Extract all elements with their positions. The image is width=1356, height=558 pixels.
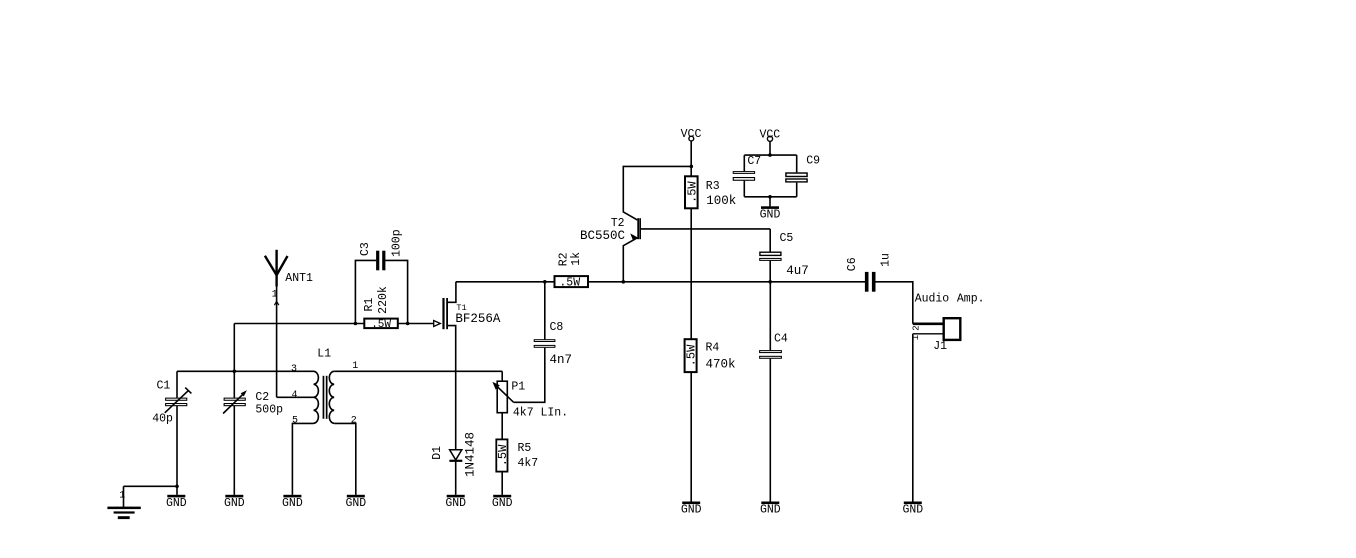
svg-text:.5W: .5W xyxy=(496,444,510,466)
wire P1 top drop xyxy=(501,371,503,381)
ground GND (J1) xyxy=(902,502,923,517)
ground GND (C4) xyxy=(760,502,781,517)
variable capacitor C1 xyxy=(152,380,191,426)
svg-text:C6: C6 xyxy=(846,257,859,271)
svg-text:2: 2 xyxy=(351,416,357,427)
wire J1 pin1 to GND xyxy=(912,334,914,502)
junction C7 C9 bottom rail xyxy=(768,195,772,199)
svg-text:C3: C3 xyxy=(359,242,372,256)
wire VCC to R3 xyxy=(690,141,692,176)
svg-text:GND: GND xyxy=(445,497,466,510)
svg-text:2: 2 xyxy=(912,325,922,330)
svg-text:.5W: .5W xyxy=(371,319,391,331)
wire earth stub xyxy=(123,486,125,507)
capacitor C8 xyxy=(534,321,572,367)
wire C5 bottom xyxy=(769,261,771,282)
svg-text:1: 1 xyxy=(272,290,278,301)
svg-text:4k7 LIn.: 4k7 LIn. xyxy=(513,406,568,419)
svg-text:4k7: 4k7 xyxy=(518,457,539,470)
wire C4 top xyxy=(769,282,771,351)
wire P1 to R5 xyxy=(501,413,503,440)
svg-text:1: 1 xyxy=(352,361,358,372)
svg-text:GND: GND xyxy=(345,497,366,510)
svg-text:GND: GND xyxy=(760,208,781,221)
svg-text:4u7: 4u7 xyxy=(786,264,809,278)
power VCC (R3) xyxy=(681,128,702,141)
ground GND (C1) xyxy=(166,495,187,510)
wire R3 to R4 xyxy=(690,208,692,339)
wire C5 top drop xyxy=(769,229,771,252)
variable capacitor C2 xyxy=(223,390,283,416)
svg-text:R4: R4 xyxy=(706,342,720,355)
svg-text:C1: C1 xyxy=(157,380,171,393)
svg-text:C7: C7 xyxy=(747,155,761,168)
wire L1 pin5 to GND xyxy=(292,423,313,495)
svg-text:GND: GND xyxy=(492,497,513,510)
svg-text:VCC: VCC xyxy=(759,128,780,141)
ground GND (L1 pin5) xyxy=(282,495,303,510)
svg-text:500p: 500p xyxy=(255,403,283,416)
svg-text:C8: C8 xyxy=(550,321,564,334)
svg-text:VCC: VCC xyxy=(681,128,702,141)
svg-text:470k: 470k xyxy=(706,358,736,372)
svg-text:C4: C4 xyxy=(774,333,788,346)
svg-text:4: 4 xyxy=(292,390,298,401)
wire C8 bottom to P1 wiper xyxy=(514,348,545,403)
resistor R2 xyxy=(555,252,589,290)
resistor R3 xyxy=(685,176,736,208)
JFET T1 xyxy=(434,298,501,329)
wire tank rail C1-C2-L1 pin3 xyxy=(177,370,314,372)
svg-text:GND: GND xyxy=(760,504,781,517)
wire C3 left branch xyxy=(355,260,376,323)
svg-text:220k: 220k xyxy=(377,286,390,314)
svg-text:Amp.: Amp. xyxy=(957,292,985,305)
wire C4 bottom to GND xyxy=(769,359,771,502)
svg-text:GND: GND xyxy=(681,504,702,517)
wire T2 base to C5 xyxy=(641,228,771,230)
ground GND (D1) xyxy=(445,495,466,510)
wire L1 pin2 to GND xyxy=(334,423,356,495)
svg-text:GND: GND xyxy=(282,497,303,510)
ground GND (C2) xyxy=(224,495,245,510)
wire T1 drain xyxy=(448,282,456,303)
junction R3 top xyxy=(690,165,694,169)
wire to earth ground xyxy=(124,485,178,487)
wire C7 C9 bottom rail xyxy=(744,196,796,198)
svg-text:L1: L1 xyxy=(317,347,331,360)
wire D1 cathode to GND xyxy=(455,462,457,495)
svg-text:1: 1 xyxy=(119,491,125,502)
wire GND stub under C7 C9 xyxy=(769,197,771,207)
junction C3 left xyxy=(354,322,358,326)
svg-text:R3: R3 xyxy=(706,180,720,193)
svg-text:GND: GND xyxy=(224,497,245,510)
resistor R4 xyxy=(685,339,736,372)
ground GND (R4) xyxy=(681,502,702,517)
svg-text:ANT1: ANT1 xyxy=(285,272,313,285)
svg-text:5: 5 xyxy=(292,416,298,427)
svg-text:BC550C: BC550C xyxy=(580,229,625,243)
junction C3 right xyxy=(406,322,410,326)
wire antenna down to L1 pin4 xyxy=(276,250,278,397)
svg-text:C9: C9 xyxy=(806,155,820,168)
svg-text:P1: P1 xyxy=(511,381,525,394)
svg-text:Audio: Audio xyxy=(915,292,950,305)
transistor T2 xyxy=(580,217,641,243)
wire R5 to GND xyxy=(501,472,503,495)
svg-text:BF256A: BF256A xyxy=(455,312,501,326)
capacitor C9 xyxy=(785,155,820,183)
ground GND (L1 pin2) xyxy=(345,495,366,510)
connector J1 xyxy=(911,318,961,353)
svg-text:.5W: .5W xyxy=(685,181,699,203)
svg-text:C2: C2 xyxy=(255,391,269,404)
wire main signal line T1 to C6 xyxy=(456,281,865,283)
capacitor C5 xyxy=(759,232,809,278)
wire C7 C9 top rail xyxy=(744,154,796,156)
wire C9 branch xyxy=(796,155,798,197)
wire C3 right branch xyxy=(385,260,407,323)
resistor R1 xyxy=(363,286,398,331)
wire L1 pin1 to P1 xyxy=(334,370,502,372)
svg-text:GND: GND xyxy=(902,504,923,517)
svg-text:1: 1 xyxy=(911,335,921,340)
diode D1 xyxy=(431,432,477,477)
ground GND (R5) xyxy=(492,495,513,510)
svg-text:4n7: 4n7 xyxy=(550,353,573,367)
wire VCC2 drop xyxy=(769,141,771,155)
svg-text:D1: D1 xyxy=(431,446,444,460)
wire C2 top to gate line xyxy=(233,324,235,372)
junction C1 earth xyxy=(175,485,179,489)
wire T2 collector up and to R3 top xyxy=(623,166,691,220)
antenna ANT1 xyxy=(265,250,313,305)
wire C2 bottom to GND xyxy=(233,406,235,495)
junction C8 tap xyxy=(543,280,547,284)
svg-text:3: 3 xyxy=(291,364,297,375)
junction C5 C4 tap xyxy=(768,280,772,284)
wire C6 to J1 corner xyxy=(875,282,913,324)
svg-text:.5W: .5W xyxy=(559,277,580,290)
svg-text:.5W: .5W xyxy=(685,344,699,366)
power VCC (C7 C9) xyxy=(759,128,780,141)
svg-text:GND: GND xyxy=(166,497,187,510)
svg-text:1N4148: 1N4148 xyxy=(463,432,477,477)
svg-text:C5: C5 xyxy=(780,232,794,245)
potentiometer P1 xyxy=(492,381,568,420)
ground GND (C7 C9) xyxy=(760,206,781,221)
junction C2 top xyxy=(233,370,237,374)
earth ground xyxy=(107,491,140,520)
svg-text:R1: R1 xyxy=(363,298,376,312)
svg-text:R2: R2 xyxy=(558,252,571,266)
wire C2 top plate xyxy=(233,371,235,398)
svg-text:J1: J1 xyxy=(933,340,947,353)
capacitor C7 xyxy=(733,155,762,181)
wire C8 top drop xyxy=(544,282,546,340)
transformer L1 xyxy=(291,347,358,426)
svg-text:1u: 1u xyxy=(879,253,892,267)
capacitor C4 xyxy=(759,333,788,359)
wire T1 source down xyxy=(448,326,456,450)
wire C1 top xyxy=(176,371,178,398)
svg-text:100p: 100p xyxy=(390,229,403,257)
wire T2 emitter down xyxy=(623,238,637,282)
junction VCC2 rail xyxy=(768,153,772,157)
svg-text:40p: 40p xyxy=(152,413,173,426)
capacitor C6 xyxy=(846,253,892,292)
resistor R5 xyxy=(496,439,538,471)
wire C7 branch xyxy=(743,155,745,197)
wire C1 bottom to GND xyxy=(176,406,178,495)
wire L1 pin4 xyxy=(277,396,314,398)
wire gate line to R1 and T1 xyxy=(234,323,433,325)
svg-text:100k: 100k xyxy=(706,194,736,208)
svg-text:R5: R5 xyxy=(518,442,532,455)
wire R4 to GND xyxy=(690,372,692,502)
svg-text:1k: 1k xyxy=(570,252,583,266)
capacitor C3 xyxy=(359,229,403,270)
junction T2 emitter xyxy=(622,280,626,284)
